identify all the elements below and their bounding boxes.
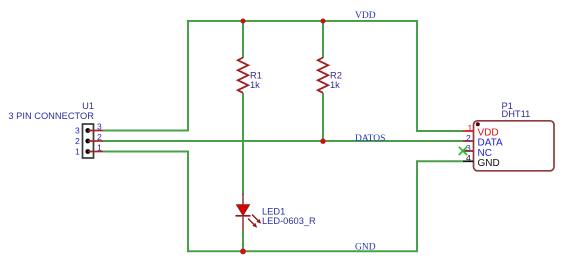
svg-text:3: 3 — [97, 122, 102, 132]
svg-text:3 PIN CONNECTOR: 3 PIN CONNECTOR — [8, 111, 94, 121]
LED1 triangle — [237, 205, 250, 216]
DHT11 pin 1 stub — [463, 130, 474, 132]
label P1 — [502, 101, 513, 111]
DHT11 pin 3 no-connect X — [459, 147, 467, 155]
DHT11 pin number 3 — [466, 143, 471, 153]
svg-text:2: 2 — [466, 133, 471, 143]
svg-text:GND: GND — [355, 242, 376, 252]
junction node GND-LED — [240, 249, 246, 255]
wire R2 top stub — [322, 21, 324, 58]
net label DATOS — [355, 134, 385, 144]
svg-text:GND: GND — [478, 158, 500, 169]
DHT11 pin 2 stub — [463, 140, 474, 142]
DHT11 pin number 2 — [466, 133, 471, 143]
label LED1 LED-0603_R — [262, 206, 316, 226]
connector U1 pin 1 stub — [88, 151, 103, 153]
LED1 bottom lead — [242, 216, 244, 231]
svg-text:3: 3 — [75, 126, 80, 136]
LED1 emission arrow 1 — [252, 215, 261, 224]
junction node VDD-R2 — [321, 19, 326, 24]
DHT11 pin name GND — [478, 158, 500, 169]
wire R1 top stub — [242, 21, 244, 58]
label 3 PIN CONNECTOR — [8, 111, 94, 121]
svg-text:1: 1 — [97, 143, 102, 153]
label DHT11 — [502, 109, 531, 119]
DHT11 pin name NC — [478, 148, 492, 159]
net label GND — [355, 242, 376, 252]
wire LED bottom — [242, 230, 244, 252]
DHT11 pin name VDD — [478, 128, 499, 139]
label R2 value 1k — [330, 71, 342, 91]
svg-text:4: 4 — [466, 153, 471, 163]
svg-text:R1: R1 — [250, 71, 262, 81]
wire R1 bottom to LED — [242, 93, 244, 195]
wire GND bottom — [103, 152, 463, 252]
DHT11 pin 3 stub — [463, 150, 474, 152]
svg-text:1: 1 — [468, 123, 473, 133]
svg-text:R2: R2 — [330, 71, 342, 81]
connector U1 pin 3 dot — [85, 128, 90, 133]
label R1 value 1k — [250, 71, 262, 91]
svg-text:1k: 1k — [250, 80, 260, 90]
connector U1 pin 2 dot — [85, 139, 90, 144]
svg-text:LED-0603_R: LED-0603_R — [262, 216, 316, 226]
DHT11 pin name DATA — [478, 138, 504, 149]
connector U1 body — [83, 124, 94, 158]
DHT11 pin 1 marker dot — [476, 122, 480, 126]
LED1 emission arrow 2 — [248, 219, 257, 228]
DHT11 pin number 1 — [468, 123, 473, 133]
connector U1 left pin numbers — [75, 126, 80, 157]
svg-text:2: 2 — [75, 136, 80, 146]
svg-text:VDD: VDD — [355, 11, 376, 21]
DHT11 pin number 4 — [466, 153, 471, 163]
resistor R1 — [238, 58, 248, 93]
LED1 cathode bar — [236, 215, 251, 217]
connector U1 right pin numbers — [97, 122, 102, 153]
wire VDD top horizontal — [103, 21, 463, 131]
connector U1 pin 1 dot — [85, 149, 90, 154]
label U1 — [82, 101, 94, 111]
svg-text:2: 2 — [97, 132, 102, 142]
DHT11 pin 4 stub — [463, 160, 474, 162]
svg-text:1: 1 — [75, 147, 80, 157]
DHT11 P1 body — [474, 121, 555, 171]
connector U1 pin 3 stub — [88, 130, 103, 132]
svg-text:DATOS: DATOS — [355, 134, 385, 144]
svg-text:U1: U1 — [82, 101, 94, 111]
svg-text:LED1: LED1 — [262, 206, 285, 216]
svg-text:DHT11: DHT11 — [502, 109, 531, 119]
svg-text:3: 3 — [466, 143, 471, 153]
svg-text:1k: 1k — [330, 80, 340, 90]
junction node DATOS-R2 — [320, 139, 325, 144]
connector U1 pin 2 stub — [88, 140, 103, 142]
wire DATOS horizontal — [103, 140, 463, 142]
junction node VDD-R1 — [241, 19, 246, 24]
resistor R2 — [318, 58, 328, 93]
net label VDD — [355, 11, 376, 21]
LED1 top lead — [242, 193, 244, 205]
wire R2 bottom stub — [322, 93, 324, 141]
